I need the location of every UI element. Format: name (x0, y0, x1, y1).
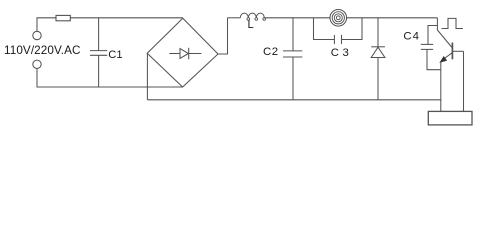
wire: top rail end drop to transistor collector (436, 18, 438, 30)
wire: bottom-left rail (terminal to bridge bottom corner) (37, 69, 183, 88)
terminal: AC input bottom (33, 60, 41, 68)
wire: bridge right corner jog up to top rail (218, 18, 228, 54)
inductor L (240, 13, 265, 20)
wire: lower bottom rail (junction to emitter column) (147, 99, 441, 101)
svg-text:C1: C1 (108, 49, 122, 61)
wire: base column down to load block (463, 51, 465, 111)
svg-text:L: L (248, 19, 254, 31)
capacitor C2 (283, 18, 302, 100)
fuse FU (56, 15, 70, 20)
wire: bridge left corner down to bottom rail junction (146, 53, 148, 99)
svg-text:C2: C2 (263, 46, 279, 58)
wire: top rail left segment (terminal to bridge apex) (37, 18, 183, 32)
diode inside bridge (169, 48, 201, 60)
bridge rectifier: diamond (147, 18, 218, 87)
terminal: AC input top (33, 31, 41, 39)
pulse waveform symbol (442, 18, 463, 28)
capacitor C3 (parallel with choke) (314, 18, 363, 44)
diode D1 (371, 18, 385, 100)
capacitor C4 (421, 26, 441, 70)
spiral inductor (choke) (330, 9, 347, 26)
capacitor C1 (90, 18, 107, 87)
svg-text:110V/220V.AC: 110V/220V.AC (4, 44, 81, 57)
load block (pedestal) (428, 111, 472, 125)
wire: emitter column down to load block (440, 62, 442, 111)
svg-text:C3: C3 (331, 47, 353, 59)
wire: top rail right segment (228, 17, 438, 19)
transistor Q1 (437, 30, 463, 62)
svg-text:C4: C4 (403, 30, 420, 42)
